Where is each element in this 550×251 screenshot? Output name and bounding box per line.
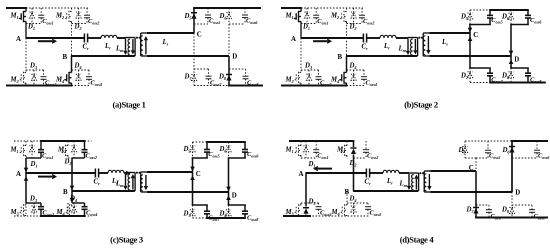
svg-text:M1: M1: [285, 147, 294, 155]
wire D7 branch: [475, 171, 477, 218]
wire Coss3 branch bottom: [43, 79, 45, 85]
wire upper bus right D-net: [510, 24, 529, 26]
capacitor Coss1: [38, 15, 44, 18]
svg-text:Coss1: Coss1: [317, 18, 328, 26]
wire D1/Coss1 join: [301, 23, 316, 25]
wire D6 branch dashed: [510, 10, 512, 25]
wire D1 branch: [31, 141, 33, 158]
capacitor Coss7 (charging): [204, 211, 210, 214]
transformer primary right edge: [134, 173, 136, 192]
mosfet M2: [340, 145, 347, 156]
svg-text:B: B: [63, 189, 68, 196]
wire D2 branch: [353, 8, 355, 24]
wire jog B to Coss4 (active): [72, 202, 85, 204]
svg-text:D2: D2: [349, 160, 358, 168]
wire Coss8 jog dashed: [512, 204, 532, 206]
wire M2 drain/leg: [67, 141, 69, 146]
transformer secondary left edge: [140, 172, 142, 192]
wire M4 to rail: [346, 83, 348, 86]
wire D3/Coss3 join dashed: [301, 69, 319, 71]
transformer secondary loop top wire: [423, 32, 429, 34]
wire Lr to transformer: [117, 37, 126, 39]
svg-text:D7: D7: [183, 210, 192, 218]
diode D3 (conducting, freewheel): [303, 208, 309, 214]
wire D5 jog to node C dashed: [465, 157, 476, 159]
svg-text:Lm: Lm: [399, 181, 408, 189]
arrow current down from node B: [70, 198, 75, 203]
capacitor Coss1: [313, 150, 319, 153]
wire node A to Cr: [26, 172, 96, 174]
capacitor Coss6: [242, 15, 248, 18]
svg-text:Ls: Ls: [441, 39, 448, 47]
transformer primary loop bottom wire: [408, 55, 418, 57]
wire Cr to Lr: [370, 172, 383, 174]
wire D5 branch dashed: [469, 10, 471, 25]
wire node A down to D3 (active): [305, 173, 307, 207]
diode D5 (conducting): [191, 13, 197, 19]
wire node B down (active): [71, 56, 73, 73]
wire Coss2 branch bottom: [84, 152, 86, 158]
wire dashed bottom line to D7: [193, 217, 208, 219]
wire secondary top to node C: [147, 32, 194, 34]
inductor secondary winding: [424, 174, 426, 191]
wire D1 branch: [306, 8, 308, 24]
wire M2 source dashed: [346, 156, 348, 160]
svg-text:Lr: Lr: [386, 178, 393, 186]
wire Coss3 branch bottom: [40, 209, 42, 216]
capacitor Cr (resonant): [84, 34, 87, 43]
wire secondary bottom to node D: [147, 55, 229, 57]
wire Coss4 branch top: [88, 70, 90, 77]
svg-text:D8: D8: [219, 210, 228, 218]
wire top rail dashed extension: [301, 7, 363, 9]
transformer primary loop top wire: [126, 172, 136, 174]
wire D4 branch: [78, 70, 80, 86]
wire bottom line (active): [206, 217, 246, 219]
svg-text:Coss2: Coss2: [86, 153, 97, 161]
wire D2 cathode: [353, 141, 355, 147]
arrow secondary current (down): [144, 175, 148, 190]
svg-text:C: C: [196, 171, 201, 178]
capacitor Coss3: [316, 77, 322, 80]
svg-text:Coss4: Coss4: [91, 80, 102, 88]
wire M1 source dashed: [25, 156, 27, 160]
capacitor Coss1: [38, 150, 44, 153]
inductor secondary winding: [140, 36, 142, 55]
wire Coss2 branch top: [86, 8, 88, 15]
svg-text:(a)Stage 1: (a)Stage 1: [112, 99, 145, 109]
svg-text:M4: M4: [55, 77, 64, 85]
wire D2 branch: [73, 141, 75, 158]
wire lower bus left C-net: [192, 204, 208, 206]
svg-text:Coss8: Coss8: [247, 215, 258, 223]
svg-text:Coss5: Coss5: [208, 151, 219, 159]
svg-text:Lm: Lm: [115, 180, 124, 188]
wire D8 branch dashed: [228, 205, 230, 218]
wire M2 drain/leg: [346, 141, 348, 146]
wire secondary top to node C: [147, 171, 193, 173]
transformer primary loop bottom wire: [126, 190, 136, 192]
wire D4 branch: [353, 203, 355, 216]
wire D8 branch: [228, 56, 230, 86]
wire Coss8 vertical: [527, 68, 529, 73]
wire node D vertical: [228, 158, 230, 192]
svg-text:Coss6: Coss6: [246, 18, 258, 26]
arrow primary current (up): [414, 175, 418, 190]
svg-text:Coss4: Coss4: [370, 210, 381, 218]
wire top input rail (active): [289, 140, 354, 142]
capacitor Coss5: [485, 150, 491, 153]
svg-text:C: C: [469, 165, 474, 172]
wire lower bus right D-net: [510, 67, 529, 69]
wire secondary top to node C: [430, 170, 476, 172]
diode D1 (body diode of M1): [303, 146, 308, 152]
wire top line (active): [489, 9, 529, 11]
wire M4 to rail: [71, 83, 73, 86]
arrow input current direction (rightward): [38, 39, 57, 44]
svg-text:C: C: [197, 32, 202, 39]
arrow secondary current (down): [427, 174, 431, 190]
mosfet M3: [294, 204, 301, 216]
mosfet M3: [19, 204, 26, 216]
wire dashed bottom line to D7: [470, 82, 490, 84]
wire lower bus right D-net: [228, 204, 246, 206]
svg-text:D: D: [514, 57, 519, 64]
arrow current down into node C: [190, 167, 195, 172]
svg-text:D5: D5: [184, 13, 193, 21]
capacitor Coss7: [486, 210, 492, 213]
svg-text:Coss6: Coss6: [530, 17, 542, 25]
inductor Lr (resonant): [108, 170, 124, 173]
wire D4 branch: [73, 203, 75, 216]
transformer secondary left edge: [423, 171, 425, 192]
svg-text:D4: D4: [74, 63, 82, 71]
mosfet M3: [294, 72, 301, 84]
diode D1 (body diode of M1): [29, 12, 34, 18]
wire secondary bottom to node D: [147, 191, 229, 193]
wire Coss2 branch top: [365, 141, 367, 150]
svg-text:D6: D6: [501, 13, 510, 21]
svg-text:M4: M4: [331, 209, 340, 217]
wire top output rail (active): [193, 7, 261, 9]
wire D5 branch dashed: [464, 141, 466, 158]
svg-text:D: D: [515, 190, 520, 197]
wire Coss4 branch bottom: [363, 79, 365, 85]
mosfet M1: [19, 11, 26, 22]
wire down into node B: [71, 158, 73, 191]
wire Coss6 vertical: [527, 10, 529, 15]
transformer primary right edge: [418, 173, 420, 191]
svg-text:M2: M2: [57, 147, 67, 155]
wire M3/D3 join dashed: [301, 202, 319, 204]
svg-text:D3: D3: [304, 63, 313, 71]
wire Coss5 jog dashed: [194, 23, 208, 25]
capacitor Coss3: [41, 77, 47, 80]
wire bottom rail dashed extension: [306, 215, 369, 217]
diode D8: [509, 208, 514, 214]
transformer secondary loop bottom wire: [141, 55, 147, 57]
wire Lr to transformer: [399, 172, 409, 174]
capacitor Coss2: [82, 150, 88, 153]
wire D8 branch dashed: [510, 68, 512, 83]
arrowhead current after Lr: [126, 171, 131, 176]
capacitor Coss4: [365, 207, 371, 210]
transformer polarity dot secondary: [422, 172, 424, 174]
diode D3 (body diode of M3): [31, 206, 36, 212]
wire Coss8 branch: [245, 69, 247, 76]
wire D8 branch: [511, 192, 513, 218]
inductor secondary winding: [423, 36, 425, 55]
svg-text:D1: D1: [308, 161, 316, 169]
transformer primary right edge: [417, 38, 419, 57]
wire secondary bottom to node D: [430, 191, 512, 193]
arrow input current direction (rightward): [313, 39, 332, 44]
arrow current down into node B: [70, 186, 75, 191]
arrow current up into node C: [468, 36, 473, 41]
wire M3 leg dashed: [300, 203, 302, 205]
transformer secondary loop top wire: [141, 32, 147, 34]
wire bottom output rail (active): [228, 85, 263, 87]
wire D2 anode to node B: [353, 155, 355, 192]
svg-text:Cr: Cr: [362, 44, 369, 52]
transformer polarity dot primary: [418, 37, 420, 39]
transformer polarity dot secondary: [138, 172, 140, 174]
wire Coss6 branch: [536, 141, 538, 150]
wire Coss6 branch: [244, 8, 246, 15]
wire Coss8 jog dashed: [229, 68, 246, 70]
wire M1 drain: [300, 141, 302, 146]
svg-text:Coss6: Coss6: [538, 153, 550, 161]
arrow current down into node D: [226, 187, 231, 192]
wire top input rail (active): [281, 7, 302, 9]
wire M1 source dashed: [300, 156, 302, 160]
wire bottom rail dashed extension: [72, 85, 91, 87]
diode D6: [508, 13, 513, 19]
wire M4 to rail: [346, 215, 348, 218]
diode D2 (body diode of M2): [76, 12, 81, 18]
wire Coss4 branch top: [367, 203, 369, 207]
svg-text:M3: M3: [285, 77, 295, 85]
wire Coss5 vertical: [489, 10, 491, 15]
wire top line (active): [206, 141, 246, 143]
arrow secondary current (up): [144, 36, 148, 54]
svg-text:Coss6: Coss6: [247, 151, 259, 159]
transformer secondary loop top wire: [141, 171, 147, 173]
diode D7: [191, 75, 196, 81]
wire Coss2 branch top: [84, 141, 86, 150]
diode D6: [226, 146, 231, 152]
wire top rail dashed right: [85, 140, 92, 142]
wire D7 branch dashed: [469, 68, 471, 83]
wire Coss6 jog dashed: [512, 157, 537, 159]
wire D6 branch: [511, 141, 513, 192]
wire node C stub dashed: [475, 158, 477, 171]
arrow current down into node D: [509, 51, 514, 56]
wire M2 drain/leg: [346, 8, 348, 12]
wire bottom output rail (active): [475, 217, 548, 219]
inductor Lr (resonant): [101, 35, 117, 38]
diode D7: [190, 210, 195, 216]
svg-text:D8: D8: [501, 72, 510, 80]
svg-text:(b)Stage 2: (b)Stage 2: [404, 99, 438, 109]
wire Coss6 vertical: [244, 142, 246, 149]
inductor Lr (resonant): [383, 170, 399, 173]
wire D3 branch: [33, 70, 35, 86]
wire node B to transformer: [346, 55, 417, 57]
wire node A down (active): [25, 173, 27, 203]
wire node B down dashed: [346, 191, 348, 205]
capacitor Cr (resonant): [363, 34, 366, 43]
svg-text:Cr: Cr: [83, 44, 90, 52]
mosfet M1: [294, 11, 301, 22]
diode D2 (conducting, freewheel): [351, 148, 357, 154]
wire node B down (active): [346, 56, 348, 73]
wire M4 below jog dashed: [67, 203, 69, 216]
capacitor Coss2: [84, 15, 90, 18]
wire Coss5 vertical: [206, 142, 208, 149]
capacitor Coss2: [363, 150, 369, 153]
svg-text:M3: M3: [10, 77, 20, 85]
arrow secondary current (down): [426, 36, 430, 54]
capacitor Coss4: [361, 77, 367, 80]
wire M3 to rail dashed: [300, 83, 302, 86]
wire Coss4 branch bottom: [367, 209, 369, 216]
wire Coss4 branch bottom: [88, 79, 90, 85]
svg-text:Lm: Lm: [398, 45, 407, 53]
svg-text:A: A: [16, 36, 21, 43]
arrow primary current (up): [131, 174, 135, 190]
wire node D vertical: [510, 25, 512, 57]
svg-text:D5: D5: [460, 13, 469, 21]
wire node B to transformer: [71, 55, 135, 57]
svg-text:Ls: Ls: [162, 39, 169, 47]
wire D3 anode to bottom rail: [305, 215, 307, 217]
diode D1 (body diode of M1): [304, 12, 309, 18]
mosfet M4: [65, 204, 72, 216]
wire D5 branch dashed: [192, 142, 194, 158]
wire bottom input rail (active): [6, 85, 72, 87]
wire top rail dashed extension: [26, 7, 88, 9]
wire Cr to Lr: [367, 37, 380, 39]
wire node A down dashed: [25, 38, 27, 73]
svg-text:(c)Stage 3: (c)Stage 3: [110, 235, 143, 245]
diode D3 (body diode of M3): [31, 74, 36, 80]
svg-text:D2: D2: [64, 159, 73, 167]
wire M1 drain: [25, 141, 27, 146]
wire Coss4 branch top: [363, 70, 365, 77]
wire Coss1 branch top: [40, 8, 42, 15]
svg-text:A: A: [291, 36, 296, 43]
wire bottom rail dashed extension: [347, 85, 366, 87]
capacitor Coss8 (charging): [242, 211, 248, 214]
wire node C up to bus: [469, 25, 471, 34]
wire M2 leg to node B dashed: [346, 22, 348, 57]
diode D8 (conducting): [226, 75, 232, 81]
inductor Lm / primary winding: [128, 39, 130, 55]
wire D6 branch bold: [511, 141, 513, 192]
svg-text:A: A: [16, 171, 21, 178]
wire jog A to Coss3 (active): [26, 202, 41, 204]
capacitor Coss8 (charging): [525, 73, 531, 76]
wire Coss3 branch bottom: [318, 209, 320, 216]
wire bottom rail Coss3-Coss4 link (active): [40, 215, 85, 217]
inductor Lm / primary winding: [411, 39, 413, 55]
wire Coss1 branch top: [315, 8, 317, 15]
diode D6: [509, 147, 515, 153]
svg-text:(d)Stage 4: (d)Stage 4: [400, 235, 435, 245]
svg-text:Coss2: Coss2: [367, 153, 378, 161]
wire D2/Coss2 join: [347, 23, 363, 25]
arrow magnetizing current iLm (down): [123, 39, 127, 56]
transformer primary loop top wire: [408, 37, 418, 39]
diode D6: [226, 13, 231, 19]
wire D3 branch: [33, 203, 35, 216]
wire M2 leg to node B dashed: [71, 22, 73, 57]
diode D4 (body diode of M4): [71, 206, 76, 212]
capacitor Coss2: [359, 15, 365, 18]
capacitor Coss3: [316, 207, 322, 210]
transformer primary loop top wire: [409, 172, 419, 174]
svg-text:D4: D4: [69, 196, 77, 204]
wire Coss1 branch bottom: [315, 18, 317, 24]
svg-text:D: D: [232, 193, 237, 200]
wire node A to Cr: [26, 37, 85, 39]
transformer secondary loop top wire: [424, 170, 430, 172]
svg-text:D3: D3: [29, 63, 38, 71]
wire node C up to bus: [192, 158, 194, 172]
wire D2/Coss2 join: [68, 157, 74, 159]
wire Cr to Lr: [99, 172, 108, 174]
mosfet M2: [61, 145, 68, 156]
svg-text:C: C: [473, 32, 478, 39]
wire D2/Coss2 join: [72, 23, 88, 25]
wire node A to Cr: [301, 37, 364, 39]
wire Coss1 branch bottom: [315, 152, 317, 158]
wire Coss6 jog dashed: [229, 23, 245, 25]
wire Coss5 jog dashed: [476, 157, 488, 159]
wire Coss8 vertical: [244, 205, 246, 211]
wire M2 source dashed: [67, 156, 69, 160]
wire down into node A: [25, 158, 27, 173]
svg-text:M2: M2: [55, 13, 65, 21]
wire D1 branch: [31, 8, 33, 24]
wire Lr to transformer: [124, 172, 126, 174]
svg-text:D7: D7: [460, 72, 469, 80]
svg-text:D1: D1: [30, 161, 38, 169]
wire Coss3 branch top: [43, 70, 45, 77]
svg-text:D2: D2: [74, 24, 83, 32]
svg-text:Cr: Cr: [94, 179, 101, 187]
mosfet M1: [19, 145, 26, 156]
wire Coss2 jog to node B: [72, 157, 85, 159]
wire Coss1 jog to node A: [26, 157, 41, 159]
wire node B down (active): [71, 191, 73, 203]
wire Coss1 branch bottom: [40, 152, 42, 158]
svg-text:Coss5: Coss5: [491, 17, 502, 25]
wire D4/Coss4 join dashed: [72, 69, 90, 71]
capacitor Coss5 (charging): [204, 150, 210, 153]
wire Coss5 branch: [487, 141, 489, 150]
wire Coss1 branch top: [315, 141, 317, 150]
capacitor Cr (resonant): [366, 169, 369, 178]
svg-text:Lr: Lr: [104, 43, 111, 51]
wire node B to transformer: [72, 190, 135, 192]
transformer primary right edge: [134, 38, 136, 57]
svg-text:M1: M1: [10, 147, 19, 155]
wire node D down to lower bus: [510, 56, 512, 68]
wire M1 source to node A: [300, 22, 302, 39]
transformer polarity dot primary: [136, 37, 138, 39]
